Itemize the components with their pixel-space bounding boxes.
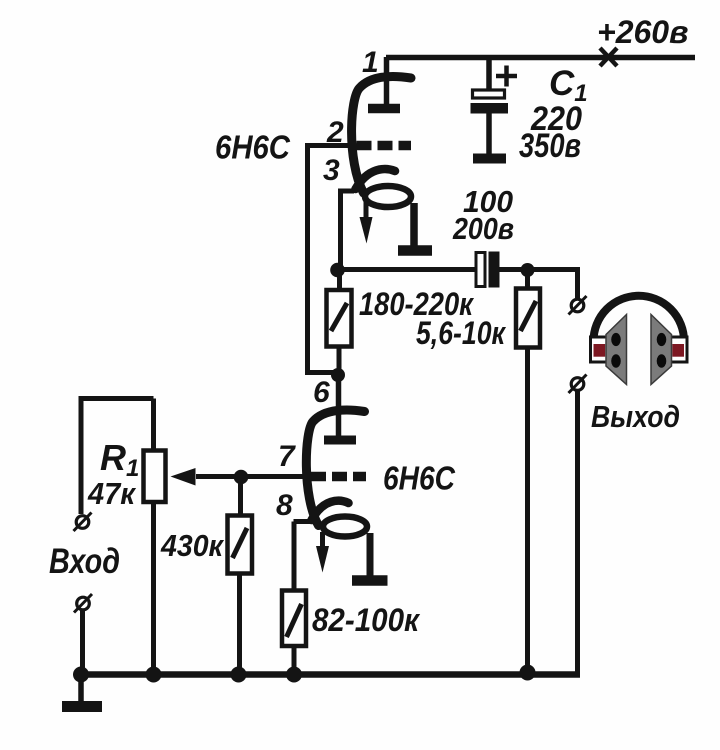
svg-text:1: 1 bbox=[362, 46, 379, 79]
svg-text:+260в: +260в bbox=[597, 14, 688, 50]
svg-text:7: 7 bbox=[278, 440, 296, 473]
svg-text:Вход: Вход bbox=[49, 542, 120, 581]
svg-text:47к: 47к bbox=[87, 476, 136, 511]
svg-text:Выход: Выход bbox=[591, 399, 680, 434]
svg-text:350в: 350в bbox=[519, 127, 581, 165]
svg-text:6Н6С: 6Н6С bbox=[215, 129, 291, 166]
svg-text:6Н6С: 6Н6С bbox=[383, 460, 456, 497]
svg-text:430к: 430к bbox=[160, 528, 224, 563]
svg-text:2: 2 bbox=[326, 116, 344, 149]
svg-text:5,6-10к: 5,6-10к bbox=[416, 315, 506, 351]
svg-text:200в: 200в bbox=[452, 211, 514, 246]
svg-text:82-100к: 82-100к bbox=[312, 602, 421, 638]
svg-text:8: 8 bbox=[276, 489, 293, 522]
svg-text:6: 6 bbox=[313, 376, 330, 409]
svg-text:3: 3 bbox=[323, 154, 340, 187]
